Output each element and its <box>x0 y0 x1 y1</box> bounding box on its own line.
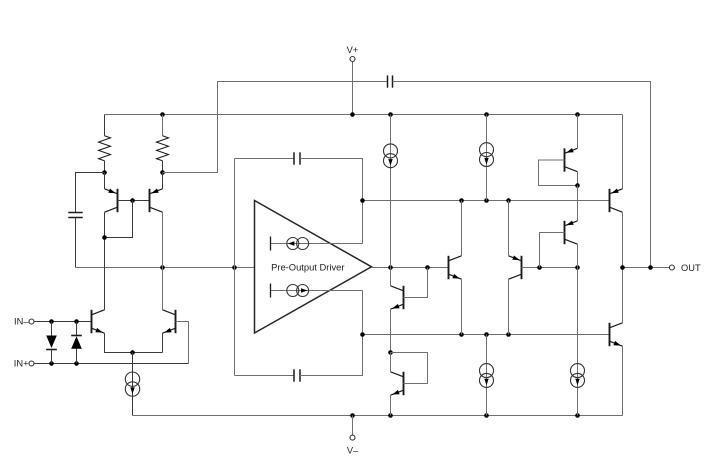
wire Q10 base loop <box>540 233 565 268</box>
wire top feedback line to OUT <box>393 82 651 268</box>
wire upper bus <box>363 200 610 202</box>
current source I6 <box>480 364 494 388</box>
current source I5 <box>480 143 494 167</box>
node emitter join <box>130 350 135 355</box>
transistor Q5 <box>391 286 404 309</box>
wire Q11 collector <box>622 212 624 267</box>
power terminal V- <box>347 416 359 456</box>
wire Q12 emitter <box>622 346 624 415</box>
node Q3-Q4 base <box>130 198 135 203</box>
wire Q5 emitter <box>390 309 392 352</box>
wire Q9 emitter <box>577 115 579 149</box>
wire driver top right <box>300 159 363 201</box>
node top rail junctions <box>160 112 580 117</box>
wire base link to Q3 collector <box>105 201 133 238</box>
current source I3 <box>271 284 309 298</box>
wire Q9 collector <box>577 172 579 186</box>
transistor Q10 <box>565 221 578 245</box>
wire upper internal source <box>271 243 363 245</box>
resistor R2 <box>157 136 169 161</box>
wire Q2 emitter <box>162 333 164 352</box>
wire V+ stub <box>352 62 354 115</box>
transistor Q8 <box>509 256 522 280</box>
wire Q4 emitter <box>162 173 164 189</box>
wire Q2 base <box>176 322 189 364</box>
resistor R1 <box>99 136 111 161</box>
wire I4 branch <box>390 115 392 268</box>
wire Q7 collector <box>461 201 463 256</box>
wire Q10 emitter <box>577 186 579 221</box>
node IN+ junctions <box>49 361 79 366</box>
wire Q8 base segment <box>522 267 578 269</box>
wire R1 top <box>104 115 106 136</box>
transistor Q2 <box>163 310 176 333</box>
svg-text:OUT: OUT <box>681 263 701 273</box>
wire Q6 emitter <box>390 395 392 415</box>
wire Q5 base loop <box>404 268 428 298</box>
node A (R1 bottom) <box>102 170 107 175</box>
diode D2 <box>71 322 82 364</box>
node Q8 base junctions <box>537 265 580 270</box>
wire mid bus <box>363 334 610 336</box>
node Q3 collector tie <box>102 235 107 240</box>
wire rail to Q11 emitter <box>622 115 624 189</box>
wire top rail (V+) <box>105 114 623 116</box>
wire driver output <box>372 267 449 269</box>
current source I1 <box>125 372 139 396</box>
wire R2 top <box>162 115 164 136</box>
wire IN+ line <box>34 363 189 365</box>
wire driver left feedback vertical <box>234 159 236 376</box>
node driver input junction <box>232 265 237 270</box>
wire Q6 base loop <box>391 353 428 384</box>
wire Q4 collector <box>162 212 164 310</box>
wire Q3-Q4 base link <box>118 200 150 202</box>
wire I7 branch <box>577 268 579 416</box>
node OUT junctions <box>620 265 653 270</box>
current source I4 <box>384 144 398 168</box>
wire R2 bottom <box>162 161 164 173</box>
terminal OUT <box>669 263 701 273</box>
transistor Q12 (output NPN) <box>610 323 623 346</box>
wire first-stage output to driver <box>76 267 256 269</box>
transistor Q1 <box>92 310 105 333</box>
svg-text:IN–: IN– <box>14 317 29 327</box>
svg-text:V+: V+ <box>347 45 359 55</box>
wire C1 to driver input line <box>75 218 77 268</box>
wire lower internal source <box>271 290 363 292</box>
svg-text:IN+: IN+ <box>14 358 29 368</box>
wire Q1 emitter <box>105 333 163 352</box>
svg-text:Pre-Output Driver: Pre-Output Driver <box>271 261 344 272</box>
transistor Q3 <box>105 189 118 213</box>
wire Q3 emitter <box>104 173 106 189</box>
wire Q3 collector <box>104 212 106 310</box>
wire Q8 collector <box>508 279 510 334</box>
node bottom rail junctions <box>350 413 580 418</box>
wire Q8 emitter <box>508 201 510 256</box>
wire node A to C1 <box>76 173 105 213</box>
wire upper internal source corner <box>362 201 364 244</box>
wire Q7 emitter <box>461 279 463 334</box>
node mid bus junctions <box>360 332 511 337</box>
terminal IN+ <box>14 358 34 368</box>
transistor Q4 <box>150 189 163 213</box>
wire Q9 base loop <box>539 160 578 186</box>
power terminal V+ <box>347 45 359 62</box>
capacitor C2 <box>388 75 393 87</box>
node IN- junctions <box>49 319 79 324</box>
node upper bus junctions <box>360 198 511 203</box>
wire I5 branch <box>486 115 488 201</box>
wire bottom rail (V-) <box>133 415 623 417</box>
wire Q12 collector <box>622 268 624 323</box>
wire node B to top feedback line <box>163 82 388 173</box>
current source I2 <box>271 237 309 251</box>
current source I7 <box>571 364 585 388</box>
wire I6 branch <box>486 335 488 416</box>
diode D1 <box>46 322 57 364</box>
node Q5-Q6 tie <box>388 350 393 355</box>
svg-text:V–: V– <box>347 446 359 456</box>
transistor Q6 <box>391 372 404 395</box>
wire Q10 collector <box>577 244 579 267</box>
wire tail <box>132 353 134 416</box>
op-amp U1 (pre-output driver triangle) <box>255 201 372 334</box>
node B (R2 bottom) <box>160 170 165 175</box>
transistor Q7 <box>449 256 462 279</box>
wire lower internal source corner <box>362 291 364 335</box>
node first-stage output junction <box>160 265 165 270</box>
wire driver top <box>235 158 295 160</box>
capacitor C3 <box>294 152 300 164</box>
node driver output junctions <box>388 265 430 270</box>
terminal IN- <box>14 317 34 327</box>
wire Q6 collector <box>390 353 392 372</box>
wire OUT segment <box>623 267 670 269</box>
wire driver bottom right <box>300 335 363 376</box>
node Q9-Q10 tie <box>575 183 580 188</box>
transistor Q9 <box>565 148 578 172</box>
wire R1 bottom <box>104 161 106 173</box>
capacitor C4 <box>294 369 300 381</box>
wire driver bottom <box>235 375 295 377</box>
capacitor C1 <box>68 213 82 218</box>
wire Q5 collector <box>390 268 392 286</box>
transistor Q11 (output PNP) <box>610 189 623 213</box>
wire IN- line <box>34 321 92 323</box>
